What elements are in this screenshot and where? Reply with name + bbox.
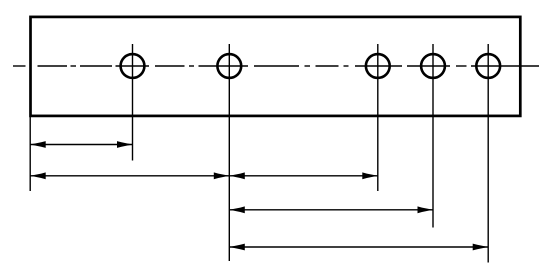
hole H4 vertical centerline / extension line (432, 44, 434, 228)
arrowhead row C right (418, 206, 434, 213)
arrowhead row D left (229, 244, 245, 251)
arrowhead row B seg1 right (214, 172, 230, 179)
hole H5 (476, 54, 500, 78)
dimension line row D (hole H2 to hole H5) (229, 246, 488, 248)
hole H5 vertical centerline / extension line (487, 44, 489, 263)
dimension line row B segment 1 (left edge to hole H2) (30, 175, 229, 177)
hole H2 vertical centerline / extension line (228, 44, 230, 261)
dimension line row A (left edge to hole H1) (30, 144, 132, 146)
hole H3 (366, 54, 390, 78)
arrowhead row C left (229, 206, 245, 213)
hole H3 vertical centerline / extension line (377, 44, 379, 191)
hole H1 vertical centerline / extension line (132, 44, 134, 161)
dimension line row B segment 2 (hole H2 to hole H3) (229, 175, 377, 177)
centerline (horizontal dash-dot axis) (13, 65, 539, 67)
plate outline (31, 17, 521, 116)
hole H1 (121, 54, 145, 78)
arrowhead row D right (473, 244, 489, 251)
extension line below plate left edge (29, 116, 31, 191)
arrowhead row A left (30, 141, 46, 148)
arrowhead row A right (117, 141, 133, 148)
hole H2 (217, 54, 241, 78)
hole H4 (421, 54, 445, 78)
arrowhead row B seg2 left (229, 172, 245, 179)
arrowhead row B seg1 left (30, 172, 46, 179)
arrowhead row B seg2 right (362, 172, 378, 179)
dimension line row C (hole H2 to hole H4) (229, 209, 433, 211)
